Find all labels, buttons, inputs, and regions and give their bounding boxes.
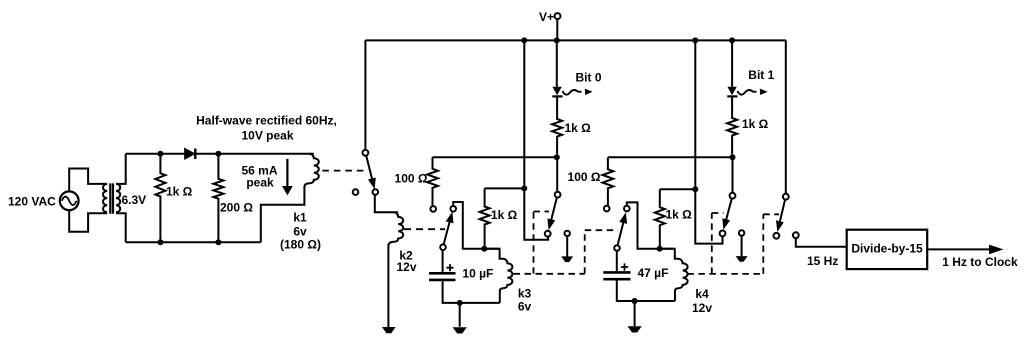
switch S2 moving contact [440,244,446,250]
wire divider output arrow [927,248,989,250]
relay coil K2 [388,212,403,246]
dashed linkage K3 horizontal [514,230,619,274]
transformer T1 secondary winding [116,184,120,213]
LED2 Bit 1 [727,87,736,95]
label C1 plus [446,264,453,271]
ground under K2 [382,327,396,333]
resistor R3 100 ohm [427,157,438,206]
capacitor C2 [603,271,630,274]
relay coil K4 [660,249,688,301]
wire top bus [365,39,785,41]
terminal V+ [555,13,561,19]
switch S3 arm [551,197,557,221]
ground under C2 [628,326,642,332]
node at x695 y189 [692,186,698,192]
node C1 ground junction [457,300,463,306]
LED1 light arrow [563,90,582,95]
switch S1 pivot contact [363,150,369,156]
svg-text:k4: k4 [695,287,709,301]
wire secondary bottom to bottom rail [120,213,126,242]
dashed linkage K4 to switch S5 [712,213,724,274]
wire K1 bottom staircase to bottom rail [261,187,305,243]
label C2 plus [621,263,628,270]
wire bus x695 down to S5 contact [695,40,722,243]
node under R7 [554,154,560,160]
wire ground contact down [566,236,568,256]
transformer T1 core [110,183,113,213]
resistor R7 1k under LED1 [552,96,562,154]
wire K2 to ground [387,245,389,327]
wire output contact to divider [796,238,847,247]
switch S1 open contact [353,189,359,195]
wire V+ to bus [556,19,558,40]
switch S4 moving contact [614,245,620,251]
switch S1 throw contact [373,189,379,195]
resistor R8 1k under LED2 [727,96,737,154]
node C2 ground junction [632,298,638,304]
resistor R5 1k [480,188,490,248]
wire node to switch S3 pivot [556,157,558,191]
svg-text:15 Hz: 15 Hz [807,254,838,268]
svg-text:120 VAC: 120 VAC [8,195,56,209]
switch S2 arm [444,219,451,244]
node top of R2 [215,151,221,157]
svg-text:Divide-by-15: Divide-by-15 [851,241,923,255]
switch S6 pivot contact [783,194,789,200]
svg-text:10V peak: 10V peak [241,129,293,143]
switch S4 arm [618,220,624,245]
wire 100ohm R4 node line [608,156,733,158]
svg-text:Half-wave rectified 60Hz,: Half-wave rectified 60Hz, [196,114,337,128]
node at x524 y188 [521,185,527,191]
svg-text:12v: 12v [396,260,416,274]
svg-text:1k Ω: 1k Ω [565,121,592,135]
switch S6 arm [780,200,786,224]
svg-text:6v: 6v [518,300,532,314]
wire bus to switch S1 [364,40,366,149]
switch S3 throw contact [545,231,551,237]
wire C2 bottom [617,281,675,302]
switch S4 normally-closed contact [624,206,630,212]
ground contact terminal cell1 [565,231,570,236]
diode D1 [185,149,194,159]
switch S1 arm [366,156,372,181]
node B junction dot [657,246,663,252]
svg-text:10 µF: 10 µF [462,267,493,281]
resistor R4 100 ohm [603,157,614,206]
switch S3 pivot contact [555,192,561,198]
wire bus x524 down to S3 contact [524,40,548,239]
dashed linkage K2 to switch S2 [404,228,445,230]
arrow 56 mA current [286,159,288,187]
wire R6 top to x695 vertical [660,188,696,190]
switch S2 normally-closed contact [450,206,456,212]
switch S5 throw contact [720,231,726,237]
resistor R1 1k [155,154,165,243]
relay coil K1 [304,154,318,188]
dashed linkage K1 to switch S1 [322,170,368,172]
wire bus to switch S6 [785,40,787,193]
AC source V1 [60,191,79,210]
wire S2 NC contact to node A [453,202,499,249]
resistor R2 200 ohm [213,154,223,243]
svg-text:Bit 0: Bit 0 [576,71,602,85]
svg-text:k1: k1 [293,211,307,225]
wire C1 bottom [443,281,500,303]
node bus x695 [692,37,698,43]
capacitor C1 [429,272,456,275]
ground contact terminal cell2 [739,230,744,235]
svg-text:12v: 12v [692,301,712,315]
svg-text:1k Ω: 1k Ω [491,208,518,222]
wire ground contact down cell2 [741,236,743,257]
ground under cell1 contact [561,256,573,262]
relay coil K3 [484,249,512,303]
wire R5 top to x524 vertical [485,187,525,189]
resistor R6 1k [655,189,665,248]
node under R8 [730,154,736,160]
svg-text:peak: peak [246,176,274,190]
wire top rail [126,153,314,155]
switch S5 arm [726,199,732,222]
node A junction dot [481,246,487,252]
wire node to ground cell2 [634,301,636,326]
node bottom of R2 [215,239,221,245]
svg-text:6.3V: 6.3V [122,193,147,207]
switch S6 output contact [793,232,799,238]
switch S4 fixed contact under R4 [604,206,610,212]
svg-text:47 µF: 47 µF [638,266,669,280]
svg-text:6v: 6v [293,225,307,239]
svg-text:1k Ω: 1k Ω [166,185,193,199]
node bottom of R1 [157,239,163,245]
LED1 Bit 0 [552,87,561,95]
capacitor C1 wire from S2 moving contact [442,250,444,272]
switch S6 open contact [774,233,780,239]
wire S4 NC contact to node B [627,202,675,248]
dashed linkage K3 to switch S3 [534,212,550,274]
svg-text:1 Hz to Clock: 1 Hz to Clock [942,255,1018,269]
wire node to ground cell1 [459,303,461,327]
ground under cell2 contact [736,256,748,262]
svg-text:1k Ω: 1k Ω [666,208,693,222]
wire 100ohm R3 node line [433,156,557,158]
wire secondary top to top rail [120,154,126,184]
svg-text:100 Ω: 100 Ω [395,172,428,186]
wire node to switch S5 pivot [732,157,734,193]
wire source bottom to transformer primary [69,210,103,232]
LED2 wire from bus [731,40,733,86]
svg-text:200 Ω: 200 Ω [220,201,253,215]
node bus x524 [521,37,527,43]
switch S5 pivot contact [730,193,736,199]
transformer T1 primary winding [103,184,107,213]
node top of R1 [157,151,163,157]
svg-text:V+: V+ [539,10,554,24]
wire source top to transformer primary [69,169,103,192]
svg-text:(180 Ω): (180 Ω) [280,238,321,252]
block Divide-by-15 [847,230,928,269]
node bus x557 [554,37,560,43]
svg-text:Bit 1: Bit 1 [748,68,774,82]
LED2 light arrow [738,90,757,95]
svg-text:100 Ω: 100 Ω [568,170,601,184]
ground under C1 [453,327,467,333]
switch S2 fixed contact under R3 [430,206,436,212]
node bus x732 [729,37,735,43]
LED1 wire from bus [556,40,558,86]
svg-text:1k Ω: 1k Ω [742,117,769,131]
wire S1 to relay coil K2 [375,195,398,213]
svg-text:k3: k3 [518,287,532,301]
capacitor C2 wire from S4 moving contact [616,251,618,271]
wire bottom rail [126,241,261,243]
dashed linkage K4 horizontal [687,214,779,274]
